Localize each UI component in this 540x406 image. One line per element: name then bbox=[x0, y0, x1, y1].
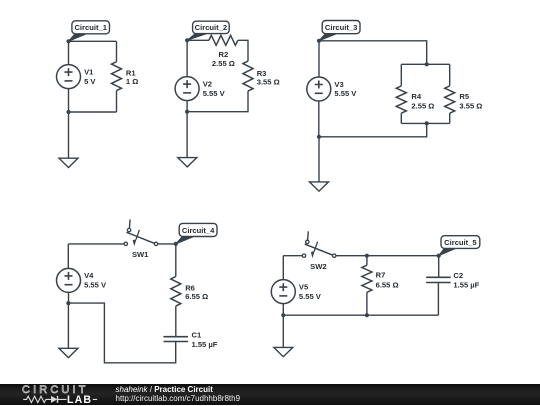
wire R6 to C1 bbox=[175, 306, 177, 337]
svg-text:Circuit_2: Circuit_2 bbox=[195, 23, 228, 32]
svg-text:R1: R1 bbox=[126, 69, 136, 78]
label callout Circuit_4 bbox=[176, 223, 217, 244]
svg-text:5 V: 5 V bbox=[84, 77, 96, 86]
wire C2 top stub bbox=[438, 256, 440, 278]
wire parallel top rail bbox=[401, 63, 449, 65]
svg-text:R4: R4 bbox=[411, 92, 421, 101]
svg-text:V3: V3 bbox=[334, 80, 343, 89]
svg-text:SW2: SW2 bbox=[310, 262, 326, 271]
resistor R3 3.55 Ohm bbox=[243, 61, 280, 91]
resistor R5 3.55 Ohm bbox=[445, 86, 483, 113]
ground circuit4 bbox=[59, 348, 78, 357]
ground circuit3 bbox=[310, 182, 329, 191]
wire R6 top stub bbox=[175, 244, 177, 277]
wire circuit2 to ground bbox=[186, 112, 188, 158]
svg-text:V5: V5 bbox=[299, 282, 309, 291]
wire circuit3 top bbox=[319, 41, 427, 65]
wire circuit5 to ground bbox=[282, 315, 284, 347]
node circuit1 bottom bbox=[66, 110, 70, 114]
wire V1 bottom stub bbox=[68, 89, 70, 112]
svg-text:Circuit_3: Circuit_3 bbox=[325, 23, 358, 32]
label callout Circuit_2 bbox=[187, 21, 229, 40]
resistor R6 6.55 Ohm bbox=[171, 277, 208, 307]
node circuit2 top-left bbox=[185, 38, 189, 42]
switch SW1 bbox=[124, 220, 158, 260]
svg-text:6.55 Ω: 6.55 Ω bbox=[376, 280, 399, 289]
label callout Circuit_5 bbox=[439, 236, 480, 256]
wire V2 top stub bbox=[186, 40, 188, 76]
wire V3 top stub bbox=[318, 41, 320, 77]
node parallel bottom bbox=[425, 121, 429, 125]
wire circuit1 top bbox=[69, 40, 117, 42]
ground circuit5 bbox=[274, 347, 293, 356]
capacitor C2 1.55 uF bbox=[426, 271, 480, 290]
label callout Circuit_3 bbox=[319, 21, 360, 41]
wire circuit5 top-left bbox=[283, 255, 302, 257]
svg-text:6.55 Ω: 6.55 Ω bbox=[185, 292, 208, 301]
wire SW2 to C2 column bbox=[336, 255, 439, 257]
wire R4 bottom stub bbox=[400, 113, 402, 123]
svg-text:5.55 V: 5.55 V bbox=[203, 89, 226, 98]
svg-text:V4: V4 bbox=[84, 271, 94, 280]
resistor R2 2.55 Ohm bbox=[209, 35, 238, 68]
voltage source V3 5.55 V bbox=[307, 77, 357, 101]
wire V1 top stub bbox=[68, 41, 70, 64]
wire V5 bottom stub bbox=[282, 304, 284, 316]
svg-text:1 Ω: 1 Ω bbox=[126, 77, 138, 86]
wire circuit1 to ground bbox=[68, 112, 70, 158]
svg-text:3.55 Ω: 3.55 Ω bbox=[257, 77, 280, 86]
svg-text:C2: C2 bbox=[453, 271, 463, 280]
voltage source V1 5 V bbox=[57, 65, 97, 89]
wire R1 bottom stub bbox=[116, 91, 118, 112]
node circuit2 bottom bbox=[185, 110, 189, 114]
node R7 bottom bbox=[365, 313, 369, 317]
wire R5 bottom stub bbox=[449, 113, 451, 123]
wire circuit3 to ground bbox=[318, 137, 320, 182]
svg-text:5.55 V: 5.55 V bbox=[334, 89, 357, 98]
wire parallel bottom rail bbox=[401, 122, 449, 124]
svg-text:C1: C1 bbox=[192, 330, 202, 339]
wire V3 bottom stub bbox=[318, 101, 320, 137]
svg-text:1.55 µF: 1.55 µF bbox=[453, 281, 479, 290]
svg-text:5.55 V: 5.55 V bbox=[299, 292, 322, 301]
svg-text:R7: R7 bbox=[376, 271, 386, 280]
svg-text:1.55 µF: 1.55 µF bbox=[192, 340, 218, 349]
resistor R4 2.55 Ohm bbox=[396, 86, 434, 113]
svg-text:2.55 Ω: 2.55 Ω bbox=[411, 102, 434, 111]
svg-text:Circuit_4: Circuit_4 bbox=[182, 226, 215, 235]
resistor R1 1 Ohm bbox=[112, 62, 139, 91]
svg-text:Circuit_5: Circuit_5 bbox=[444, 238, 477, 247]
label callout Circuit_1 bbox=[69, 21, 110, 42]
wire R1 top stub bbox=[116, 41, 118, 61]
wire parallel to circuit3 bottom bbox=[319, 123, 427, 136]
svg-text:V2: V2 bbox=[203, 79, 212, 88]
node R7 top bbox=[365, 254, 369, 258]
wire V5 top stub bbox=[282, 256, 284, 280]
ground circuit1 bbox=[59, 158, 78, 167]
voltage source V5 5.55 V bbox=[271, 280, 321, 304]
wire V2 bottom stub bbox=[186, 101, 188, 112]
wire V4 top stub bbox=[67, 244, 69, 269]
wire C2 bottom stub bbox=[437, 283, 439, 316]
node circuit3 bottom bbox=[317, 135, 321, 139]
svg-text:R5: R5 bbox=[459, 92, 469, 101]
svg-text:3.55 Ω: 3.55 Ω bbox=[459, 102, 482, 111]
wire circuit2 top-left segment bbox=[187, 39, 209, 41]
wire R7 top stub bbox=[366, 256, 368, 266]
wire circuit4 top-left bbox=[68, 243, 124, 245]
wire circuit1 bottom bbox=[69, 111, 117, 113]
svg-text:V1: V1 bbox=[84, 67, 94, 76]
node circuit5 top-right bbox=[437, 254, 441, 258]
wire SW1 to node bbox=[158, 243, 176, 245]
switch SW2 bbox=[302, 231, 336, 270]
wire C1 bottom return path bbox=[68, 303, 175, 363]
svg-text:2.55 Ω: 2.55 Ω bbox=[212, 59, 235, 68]
wire R7 bottom stub bbox=[366, 292, 368, 315]
wire R2 to right column bbox=[238, 40, 248, 61]
wire circuit5 bottom rail bbox=[283, 314, 438, 316]
node circuit5 bottom bbox=[281, 313, 285, 317]
wire V4 bottom stub bbox=[68, 292, 70, 303]
svg-text:SW1: SW1 bbox=[132, 250, 149, 259]
node circuit4 bottom bbox=[66, 301, 70, 305]
svg-text:Circuit_1: Circuit_1 bbox=[74, 23, 107, 32]
capacitor C1 1.55 uF bbox=[163, 330, 217, 349]
voltage source V2 5.55 V bbox=[175, 77, 225, 101]
voltage source V4 5.55 V bbox=[57, 268, 107, 292]
wire circuit4 to ground bbox=[67, 303, 69, 348]
wire R5 top stub bbox=[449, 64, 451, 86]
svg-text:5.55 V: 5.55 V bbox=[84, 281, 107, 290]
node circuit4 top-right bbox=[174, 242, 178, 246]
resistor R7 6.55 Ohm bbox=[362, 265, 399, 292]
node circuit3 top-left bbox=[317, 39, 321, 43]
node circuit1 top-left bbox=[66, 39, 70, 43]
wire R4 top stub bbox=[400, 64, 402, 86]
ground circuit2 bbox=[178, 158, 197, 167]
node parallel top bbox=[425, 62, 429, 66]
wire R3 bottom to circuit2 bottom bbox=[187, 91, 248, 112]
